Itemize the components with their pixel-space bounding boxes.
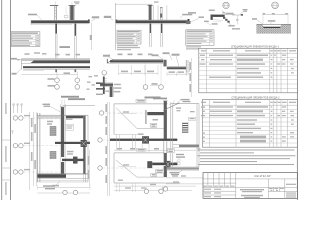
svg-text:КЖ-И 32 АР: КЖ-И 32 АР [254, 174, 270, 178]
svg-text:СПЕЦИФИКАЦИЯ ЭЛЕМЕНТОВ ВХОДА-2: СПЕЦИФИКАЦИЯ ЭЛЕМЕНТОВ ВХОДА-2 [231, 96, 280, 99]
